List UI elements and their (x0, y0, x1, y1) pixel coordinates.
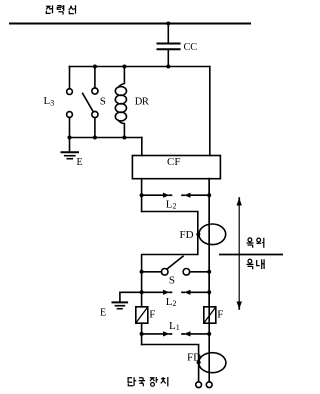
svg-text:E: E (100, 308, 106, 319)
svg-text:DR: DR (135, 97, 149, 108)
svg-text:S: S (169, 275, 175, 287)
svg-text:FD: FD (187, 352, 201, 364)
svg-text:FD: FD (180, 229, 194, 241)
svg-text:F: F (217, 309, 223, 321)
svg-text:CF: CF (167, 156, 180, 168)
svg-text:L3: L3 (44, 95, 55, 108)
svg-text:L2: L2 (166, 198, 177, 210)
svg-text:L1: L1 (169, 320, 180, 332)
svg-text:E: E (77, 157, 83, 168)
svg-text:F: F (149, 309, 155, 321)
svg-text:CC: CC (184, 42, 198, 53)
svg-text:L2: L2 (166, 296, 177, 308)
svg-text:S: S (100, 96, 106, 108)
